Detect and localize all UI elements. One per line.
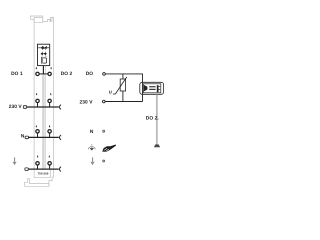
terminal 230V right (pin 6) stem: [49, 103, 51, 107]
ground symbol: [154, 144, 160, 147]
wire from function box to DO terminals: [43, 66, 45, 74]
svg-text:DO 2: DO 2: [61, 71, 73, 77]
load cone symbol: [144, 85, 148, 92]
module center channel stripe: [41, 66, 43, 170]
terminal earth left circle: [36, 162, 39, 165]
pin number 4: [37, 156, 38, 158]
svg-text:DO: DO: [86, 71, 94, 77]
earth arrow label left: [13, 157, 17, 165]
pin number 6: [50, 93, 51, 95]
legend earth arrow: [91, 157, 95, 165]
terminal earth right circle: [48, 162, 51, 165]
pin number 5: [51, 67, 52, 69]
terminal 230V right circle: [48, 99, 51, 102]
power jumper contact arc N: [59, 135, 61, 140]
earth lead from load: [156, 94, 158, 144]
pin number 3: [36, 126, 37, 128]
wire 230V to load: [105, 101, 142, 103]
terminal earth left (pin 4) stem: [37, 165, 39, 169]
output stage symbol: [41, 57, 42, 64]
varistor branch wire top: [122, 74, 124, 79]
wire DO to load: [106, 74, 143, 82]
right circuit: 230V terminal circle: [103, 100, 106, 103]
terminal DO1 (pin 1): [36, 72, 39, 75]
module housing top profile: [31, 16, 54, 22]
load device outer housing: [140, 82, 164, 94]
terminal 230V left (pin 2) stem: [37, 103, 39, 107]
svg-text:230 V: 230 V: [80, 100, 94, 106]
230V bus wire: [27, 106, 59, 108]
svg-text:U: U: [109, 90, 112, 95]
module left edge: [33, 20, 35, 178]
pin number 1: [36, 67, 37, 69]
terminal N left (pin 3) stem: [37, 133, 39, 137]
module bottom DIN-rail foot profile: [25, 170, 52, 187]
load bars: [149, 86, 155, 87]
wire DO row: [38, 73, 50, 75]
terminal 230V left circle: [36, 99, 39, 102]
svg-text:N: N: [21, 133, 25, 139]
LED indicator symbol: [38, 46, 49, 49]
varistor RV1: [120, 79, 125, 91]
N bus wire: [28, 136, 58, 138]
svg-text:N: N: [90, 129, 94, 135]
right circuit: DO terminal circle: [103, 73, 106, 76]
pin number 2: [36, 93, 37, 95]
svg-text:DO 2.: DO 2.: [146, 116, 160, 122]
varistor branch wire bottom: [122, 91, 124, 102]
power jumper contact arc 230V: [59, 105, 61, 110]
legend N terminal dot: [103, 130, 105, 132]
pin number 8: [49, 156, 50, 158]
load device inner box: [143, 84, 160, 93]
N connector symbol left: [25, 136, 28, 139]
load right pin bar: [157, 85, 159, 92]
terminal DO2 (pin 5): [48, 72, 51, 75]
terminal N left circle: [36, 130, 39, 133]
svg-text:230 V: 230 V: [9, 104, 23, 110]
terminal N right (pin 7) stem: [49, 133, 51, 137]
power jumper contact arc earth: [59, 167, 61, 172]
hand tool icon: [102, 145, 116, 152]
legend earth terminal dot: [103, 160, 105, 162]
module right edge: [53, 17, 55, 177]
dial icon: [88, 144, 95, 149]
earth connector symbol left: [25, 168, 28, 171]
load wire through housing: [142, 82, 144, 101]
terminal N right circle: [48, 130, 51, 133]
electronics function box U1: [38, 44, 50, 65]
230V connector symbol left: [23, 106, 26, 109]
pin number 7: [49, 126, 50, 128]
svg-text:750-509: 750-509: [38, 172, 49, 176]
earth bus wire: [28, 168, 59, 170]
terminal earth right (pin 8) stem: [49, 165, 51, 169]
internal down arrows: [41, 52, 46, 55]
svg-text:DO 1: DO 1: [11, 71, 23, 77]
